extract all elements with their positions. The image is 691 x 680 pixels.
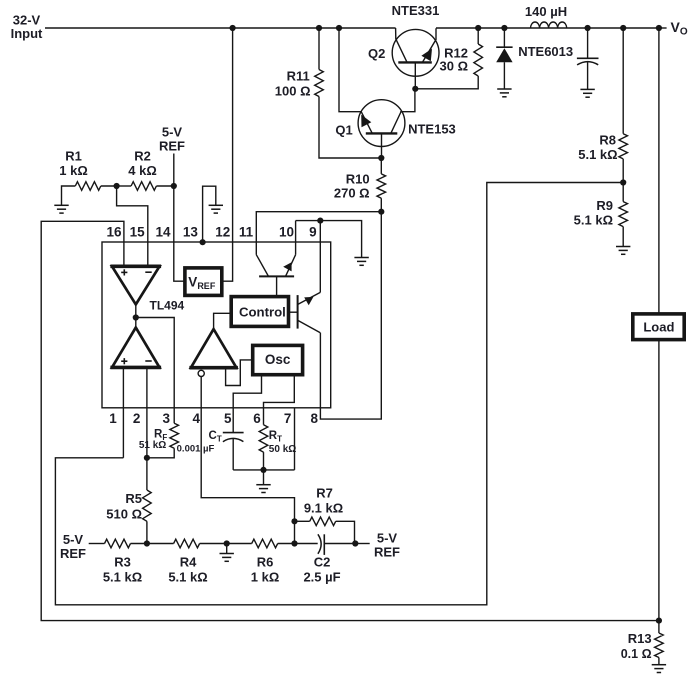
label TL494: [150, 298, 185, 312]
svg-text:10: 10: [279, 225, 294, 240]
svg-text:14: 14: [155, 225, 171, 240]
pin 5 number: [224, 411, 232, 426]
junction output bus at R12: [475, 25, 481, 31]
wire pin 1 from amp2: [122, 367, 124, 457]
svg-text:R7: R7: [316, 486, 333, 501]
resistor R6: [227, 539, 295, 548]
wire Q1 emitter feed from bus: [339, 28, 361, 112]
junction ground node R4 R6: [224, 540, 230, 546]
label RT: [269, 430, 296, 455]
wire error amp output to pin 3 and RF: [136, 318, 174, 424]
transistor internal Q-top collector to pin 11: [256, 255, 268, 277]
svg-text:6: 6: [253, 411, 261, 426]
diode NTE6013: [496, 28, 512, 89]
svg-text:2.5 µF: 2.5 µF: [303, 570, 340, 585]
junction R7 left node: [291, 518, 297, 524]
wire emitter ground rail: [296, 221, 362, 258]
pin 3 number: [162, 411, 170, 426]
transistor Q1 base bar: [366, 132, 398, 134]
svg-text:R10: R10: [346, 171, 370, 186]
pin 9 number: [309, 225, 317, 240]
wire Vo rail to Load: [658, 28, 660, 314]
svg-text:R8: R8: [599, 133, 616, 148]
label RF: [139, 428, 167, 451]
wire pin 10 to emitter rail: [295, 221, 297, 255]
ground at output filter capacitor: [580, 89, 594, 97]
block Control: [231, 297, 288, 327]
svg-text:9.1 kΩ: 9.1 kΩ: [304, 501, 343, 516]
pin 12 number: [215, 225, 230, 240]
svg-text:R13: R13: [628, 631, 652, 646]
pin 1 number: [109, 411, 117, 426]
capacitor C2: [295, 534, 356, 555]
wire current sense return to pin 16: [41, 221, 659, 620]
svg-text:16: 16: [106, 225, 122, 240]
svg-text:0.1 Ω: 0.1 Ω: [621, 647, 652, 661]
transistor internal Q-top base lead: [276, 276, 278, 296]
pin 15 number: [130, 225, 146, 240]
label R1 value: [59, 149, 88, 178]
label CT: [177, 430, 222, 454]
svg-text:R11: R11: [287, 68, 310, 83]
comparator inverting bubble: [198, 370, 204, 376]
transistor Q1 circle: [358, 100, 405, 147]
svg-text:1 kΩ: 1 kΩ: [59, 163, 88, 178]
ground at R9: [616, 247, 630, 255]
svg-text:9: 9: [309, 225, 317, 240]
transistor internal Q-right collector to pin 8: [298, 320, 321, 332]
block Osc: [253, 345, 303, 374]
junction Q1 base / R11 / R10: [378, 155, 384, 161]
wire timing ground rail: [233, 469, 294, 471]
junction R2 pin 14 node: [171, 183, 177, 189]
wire pin 7 to timing ground rail: [294, 408, 296, 470]
svg-text:4 kΩ: 4 kΩ: [128, 163, 157, 178]
svg-text:C2: C2: [314, 555, 331, 570]
transistor Q1 base lead: [381, 133, 383, 158]
block VREF: [185, 268, 222, 296]
pin 4 number: [192, 411, 200, 426]
resistor R9: [619, 183, 628, 247]
label Q1: [335, 123, 352, 138]
junction error amp outputs: [133, 314, 139, 320]
wire 5-V REF to R3: [89, 543, 105, 545]
svg-text:4: 4: [192, 411, 200, 426]
label R6 value: [251, 555, 280, 585]
label R9 value: [574, 198, 613, 228]
node 32-V Input label: [11, 13, 43, 42]
label Control: [239, 305, 286, 320]
svg-text:270 Ω: 270 Ω: [334, 185, 370, 200]
svg-text:3: 3: [162, 411, 170, 426]
junction pin 2 RF R5 node: [144, 455, 150, 461]
ground at R1: [54, 205, 68, 213]
pin 8 number: [310, 411, 318, 426]
label R10 value: [334, 171, 370, 200]
transistor Q2 circle: [392, 29, 439, 76]
svg-text:R9: R9: [596, 198, 613, 213]
wire Osc to PWM comparator input: [226, 360, 253, 386]
ground at emitter rail: [354, 258, 368, 266]
svg-text:Q1: Q1: [335, 123, 352, 138]
label NTE6013: [518, 44, 573, 59]
svg-text:5.1 kΩ: 5.1 kΩ: [103, 570, 142, 585]
label NTE331: [392, 3, 440, 18]
wire feedback from divider to pin 1: [55, 183, 623, 605]
svg-text:NTE331: NTE331: [392, 3, 440, 18]
svg-text:5: 5: [224, 411, 232, 426]
junction R8 R9 divider node: [620, 179, 626, 185]
svg-text:510 Ω: 510 Ω: [106, 507, 142, 522]
op-amp error amplifier 1: [110, 266, 161, 304]
junction R1 R2 pin 15 node: [114, 183, 120, 189]
resistor R12: [415, 28, 482, 89]
svg-text:Input: Input: [11, 26, 43, 41]
pin 11 number: [239, 225, 254, 240]
load box: [633, 314, 684, 340]
label R13 value: [621, 631, 652, 661]
junction pin 13 at IC edge: [200, 239, 206, 245]
svg-text:5.1 kΩ: 5.1 kΩ: [168, 570, 207, 585]
transistor internal Q-right emitter with arrow: [298, 292, 321, 305]
transistor Q1 emitter with arrow: [361, 112, 372, 134]
svg-text:100 Ω: 100 Ω: [275, 84, 311, 99]
op-amp 1 minus input: [145, 271, 151, 273]
op-amp 2 minus input: [145, 360, 151, 362]
wire pin 4 DTC to R6 C2 node: [201, 377, 294, 522]
svg-text:R4: R4: [180, 555, 197, 570]
ground at diode NTE6013: [497, 89, 511, 97]
svg-text:51 kΩ: 51 kΩ: [139, 440, 166, 451]
svg-text:30 Ω: 30 Ω: [440, 59, 469, 74]
ground at pin 13: [209, 205, 223, 213]
transistor internal Q-right base bar: [297, 295, 299, 329]
wire pin 15 link from R1 R2 node: [117, 186, 148, 266]
wire 32-V input bus: [45, 27, 396, 29]
resistor R11: [315, 28, 382, 158]
ground at R13: [652, 665, 666, 673]
svg-text:R1: R1: [65, 149, 82, 164]
pin 16 number: [106, 225, 122, 240]
wire pin 2 from amp2: [146, 367, 148, 457]
resistor R2: [117, 182, 174, 191]
svg-text:13: 13: [183, 225, 199, 240]
label 5-V REF top: [159, 125, 185, 154]
wire pin 9 to internal Q-right emitter: [319, 221, 321, 293]
svg-text:2: 2: [133, 411, 141, 426]
svg-text:R3: R3: [114, 555, 131, 570]
label R3 value: [103, 555, 142, 585]
wire pin 14 link to VREF block: [174, 186, 185, 281]
junction R6 C2 R7 pin4 node: [291, 540, 297, 546]
svg-text:5-V: 5-V: [377, 531, 398, 546]
svg-text:140 µH: 140 µH: [525, 4, 567, 19]
svg-text:5-V: 5-V: [162, 125, 183, 140]
label R11 value: [275, 68, 311, 98]
transistor Q2 base lead: [414, 62, 416, 88]
wire R7 left link: [294, 521, 296, 543]
junction on input bus at Q1 emitter: [336, 25, 342, 31]
resistor R3: [105, 539, 147, 548]
svg-text:R2: R2: [134, 149, 151, 164]
svg-text:Load: Load: [643, 319, 674, 334]
resistor R8: [619, 28, 628, 183]
junction on input bus at pin 12 drop: [230, 25, 236, 31]
transistor Q1 collector: [391, 89, 415, 134]
wire C2 node to 5-V REF right: [355, 543, 369, 545]
svg-text:Osc: Osc: [265, 352, 291, 367]
svg-text:Q2: Q2: [368, 46, 385, 61]
junction pin 9 on emitter rail: [317, 218, 323, 224]
capacitor output filter: [577, 28, 599, 89]
label R2 value: [128, 149, 157, 178]
pin 14 number: [155, 225, 171, 240]
junction R10 bottom node: [378, 209, 384, 215]
svg-text:8: 8: [310, 411, 318, 426]
junction on input bus at R11: [316, 25, 322, 31]
svg-text:11: 11: [239, 225, 254, 240]
svg-text:15: 15: [130, 225, 146, 240]
pin 13 number: [183, 225, 199, 240]
svg-text:5-V: 5-V: [63, 532, 84, 547]
op-amp 2 plus input: [121, 358, 127, 364]
label 5-V REF right: [374, 531, 400, 560]
label R7 value: [304, 486, 343, 516]
IC TL494 outline: [102, 242, 331, 408]
label Load: [643, 319, 674, 334]
svg-text:12: 12: [215, 225, 230, 240]
op-amp 1 plus input: [121, 269, 127, 275]
svg-text:R6: R6: [257, 555, 274, 570]
node Vo terminal: [656, 25, 667, 31]
junction C2 right node: [352, 540, 358, 546]
svg-text:Control: Control: [239, 305, 286, 320]
resistor R7: [295, 517, 355, 544]
junction Q2 base / Q1 collector / R12: [412, 86, 418, 92]
transistor internal Q-right base lead: [289, 311, 298, 313]
transistor Q2 emitter with arrow: [421, 28, 436, 62]
svg-text:NTE153: NTE153: [408, 121, 456, 136]
wire Osc to pin 5: [233, 375, 261, 433]
junction R5 bottom node: [144, 540, 150, 546]
label 140uH: [525, 4, 567, 19]
svg-text:NTE6013: NTE6013: [518, 44, 573, 59]
wire Load to R13 node: [658, 340, 660, 621]
op-amp error amplifier 2: [110, 328, 161, 368]
pin 2 number: [133, 411, 141, 426]
wire R10 node to pin 11: [256, 212, 381, 255]
svg-text:REF: REF: [159, 139, 185, 154]
wire amp outputs tie: [135, 305, 137, 328]
wire Osc to pin 6: [264, 375, 295, 425]
svg-text:5.1 kΩ: 5.1 kΩ: [578, 147, 617, 162]
label R5 value: [106, 491, 142, 521]
label NTE153: [408, 121, 456, 136]
junction output bus at R8: [620, 25, 626, 31]
label Q2: [368, 46, 385, 61]
svg-text:REF: REF: [60, 546, 86, 561]
pin 7 number: [284, 411, 292, 426]
junction RT on timing rail: [260, 467, 266, 473]
resistor RF: [147, 423, 179, 458]
label 5-V REF left: [60, 532, 86, 561]
wire pin 13 to ground: [203, 186, 216, 242]
transistor internal Q-top base bar: [259, 275, 294, 277]
svg-text:REF: REF: [374, 545, 400, 560]
wire 5-V REF stub: [173, 154, 175, 187]
label C2 value: [303, 555, 340, 585]
svg-text:TL494: TL494: [150, 298, 185, 312]
svg-text:1: 1: [109, 411, 117, 426]
wire R10 node to pin 8: [320, 212, 381, 419]
ground at R4 R6 node: [220, 544, 234, 562]
resistor R1: [62, 182, 117, 206]
wire output bus from Q2 emitter to Vo: [436, 27, 659, 29]
wire pin 12 VCC drop from input bus to VREF block: [222, 28, 233, 281]
transistor Q2 collector: [396, 28, 408, 62]
svg-text:R5: R5: [125, 491, 142, 506]
resistor R5: [143, 458, 152, 544]
svg-text:0.001 µF: 0.001 µF: [177, 443, 215, 454]
label Osc: [265, 352, 291, 367]
svg-text:1 kΩ: 1 kΩ: [251, 570, 280, 585]
pin 6 number: [253, 411, 261, 426]
svg-text:50 kΩ: 50 kΩ: [269, 444, 296, 455]
label R8 value: [578, 133, 617, 162]
junction R13 top node: [656, 618, 662, 624]
resistor R10: [377, 158, 386, 212]
resistor R13: [655, 621, 664, 665]
capacitor CT: [223, 433, 244, 470]
transistor internal Q-top emitter with arrow to pin 10: [283, 255, 295, 277]
junction output bus at filter cap: [585, 25, 591, 31]
transistor Q2 base bar: [398, 61, 432, 63]
label R12 value: [440, 45, 469, 73]
junction output bus at diode: [501, 25, 507, 31]
svg-text:7: 7: [284, 411, 292, 426]
label R4 value: [168, 555, 207, 585]
label Vo: [671, 19, 688, 38]
comparator PWM triangle: [189, 329, 238, 368]
resistor R4: [147, 539, 227, 548]
label VREF: [188, 274, 216, 291]
inductor 140uH: [531, 22, 567, 28]
pin 10 number: [279, 225, 294, 240]
ground at timing rail: [256, 470, 270, 493]
svg-text:5.1 kΩ: 5.1 kΩ: [574, 213, 613, 228]
resistor RT: [259, 425, 268, 470]
wire PWM output to Control: [214, 313, 232, 329]
